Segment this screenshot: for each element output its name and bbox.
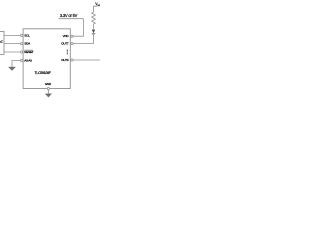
- pin circle A0-A3: [21, 59, 23, 61]
- wire A0-A3 to ground: [12, 61, 21, 67]
- wire OUT0 (runs off right edge): [73, 59, 101, 61]
- pin circle OUT0: [71, 59, 73, 61]
- microcontroller box (cut off at left edge): [0, 32, 4, 55]
- wire resistor to VLED: [94, 6, 98, 12]
- resistor R1: [92, 12, 96, 24]
- wire supply to VDD: [73, 19, 83, 37]
- pin label RESET (active low): [24, 50, 33, 54]
- ground (GND pin): [45, 94, 51, 97]
- svg-text:SCL: SCL: [24, 33, 30, 37]
- svg-text:A0-A3: A0-A3: [24, 58, 32, 62]
- pin circle SDA: [21, 43, 23, 45]
- svg-text:RESET: RESET: [24, 50, 33, 54]
- pin circle RESET: [21, 51, 23, 53]
- wire OUT7 to LED: [73, 34, 93, 43]
- svg-text:3.3V or 5V: 3.3V or 5V: [60, 13, 78, 18]
- pin circle GND: [47, 88, 49, 90]
- wire GND: [47, 90, 49, 94]
- pin circle OUT7: [71, 42, 73, 44]
- wire RESET: [4, 51, 20, 53]
- LED D1: [92, 24, 96, 34]
- svg-text:TLC59108F: TLC59108F: [35, 71, 51, 75]
- svg-text:GND: GND: [45, 82, 52, 86]
- wire SDA: [4, 43, 20, 45]
- ellipsis between OUT7 and OUT0: [67, 50, 68, 55]
- svg-text:SDA: SDA: [24, 42, 30, 46]
- pin circle SCL: [21, 34, 23, 36]
- svg-text:OUT7: OUT7: [61, 42, 69, 46]
- pin circle VDD: [71, 35, 73, 37]
- svg-text:OUT0: OUT0: [61, 58, 69, 62]
- IC U1 TLC59108F box: [23, 29, 70, 89]
- ground (A0-A3): [9, 67, 16, 71]
- wire SCL: [4, 34, 20, 36]
- supply rail: [58, 18, 83, 20]
